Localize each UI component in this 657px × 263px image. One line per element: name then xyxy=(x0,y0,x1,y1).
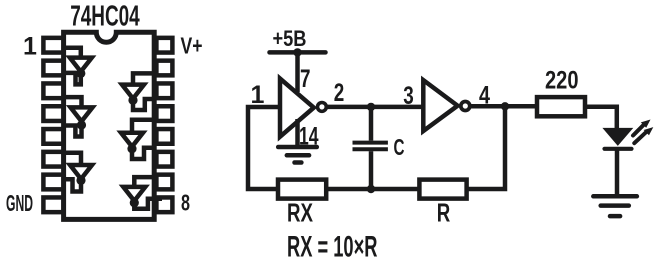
gate A input wire xyxy=(64,48,81,60)
pin 1 (left) xyxy=(43,38,63,53)
gate D output wire xyxy=(133,99,154,110)
inverter U1b bubble xyxy=(461,102,470,111)
LED arrow 2 xyxy=(634,132,646,143)
LED D1 cathode bar xyxy=(605,147,632,151)
pin 2 (left) xyxy=(43,61,63,76)
pin 7 (left) xyxy=(43,175,63,190)
gate F output wire xyxy=(134,199,162,209)
gate B inverter xyxy=(71,107,93,121)
LED D1 anode triangle xyxy=(602,128,633,146)
svg-text:74HC04: 74HC04 xyxy=(70,0,140,32)
svg-text:RX = 10×R: RX = 10×R xyxy=(287,231,378,263)
gate E inverter xyxy=(121,133,143,147)
pin 13 (right) xyxy=(156,106,172,121)
wire node1 input xyxy=(248,107,280,189)
+5V supply rail xyxy=(270,50,326,55)
pin 9 (right) xyxy=(156,197,172,212)
pin 5 (left) xyxy=(43,129,63,144)
gate C input wire xyxy=(64,153,81,168)
pin 14 (right) xyxy=(156,83,172,98)
IC U1 body xyxy=(64,32,155,219)
inverter U1b xyxy=(423,80,457,131)
gate F inverter xyxy=(123,187,145,201)
pin 3 (left) xyxy=(43,83,63,98)
svg-text:C: C xyxy=(394,134,405,160)
svg-text:GND: GND xyxy=(6,190,33,216)
svg-text:V+: V+ xyxy=(181,33,203,59)
gate A bubble xyxy=(76,69,85,78)
wire 220 to LED xyxy=(585,107,617,129)
inverter U1a bubble xyxy=(318,103,327,112)
pin 4 (left) xyxy=(43,106,63,121)
gate C output wire xyxy=(64,179,81,191)
resistor R xyxy=(419,180,466,199)
pin 15 (right) xyxy=(156,61,172,76)
svg-text:3: 3 xyxy=(403,82,414,110)
pin 8 (left) xyxy=(43,197,63,212)
pin 7 wire xyxy=(295,52,300,92)
svg-text:R: R xyxy=(437,198,451,228)
junction rail/C xyxy=(367,185,375,193)
junction node2/C xyxy=(367,103,375,111)
svg-text:+5B: +5B xyxy=(273,26,307,51)
svg-text:RX: RX xyxy=(287,198,313,228)
gate C bubble xyxy=(76,176,85,185)
wire rail RX to R xyxy=(326,187,419,192)
gate F bubble xyxy=(130,198,139,207)
resistor 220 xyxy=(537,97,585,116)
gate E input wire xyxy=(132,120,154,135)
gate B output wire xyxy=(64,125,82,137)
svg-text:1: 1 xyxy=(23,33,37,61)
gate E bubble xyxy=(127,144,136,153)
pin 11 (right) xyxy=(156,152,172,167)
junction node4 xyxy=(501,102,509,110)
gate F input wire xyxy=(134,177,154,189)
capacitor C bottom lead xyxy=(369,151,374,189)
capacitor C top lead xyxy=(369,107,374,141)
gate E output wire xyxy=(132,148,154,159)
gate A output wire xyxy=(64,73,81,85)
svg-text:2: 2 xyxy=(334,79,345,107)
LED arrow 1 xyxy=(633,125,643,135)
svg-text:220: 220 xyxy=(545,67,579,95)
LED ground lead xyxy=(615,149,620,197)
wire node2 xyxy=(327,105,424,110)
pin 10 (right) xyxy=(156,175,172,190)
wire node4 feedback drop xyxy=(467,106,505,189)
svg-text:8: 8 xyxy=(181,190,190,216)
gate A inverter xyxy=(70,58,92,72)
gate B bubble xyxy=(77,120,86,129)
gate B input wire xyxy=(64,97,82,110)
ground (LED) xyxy=(593,196,637,216)
svg-text:7: 7 xyxy=(300,65,311,93)
gate C inverter xyxy=(70,165,92,179)
wire node4 xyxy=(470,104,537,109)
ground (pin 14) xyxy=(278,147,317,163)
gate D inverter xyxy=(122,85,144,99)
pin 6 (left) xyxy=(43,152,63,167)
resistor RX xyxy=(278,180,326,199)
junction supply/pin7 xyxy=(293,48,301,56)
pin 16 (right) xyxy=(156,38,172,53)
pin 14 wire xyxy=(295,119,300,147)
gate D input wire xyxy=(133,73,154,87)
pin 12 (right) xyxy=(156,129,172,144)
op inverter U1a xyxy=(280,79,314,137)
gate D bubble xyxy=(128,96,137,105)
capacitor C plates xyxy=(353,143,388,150)
